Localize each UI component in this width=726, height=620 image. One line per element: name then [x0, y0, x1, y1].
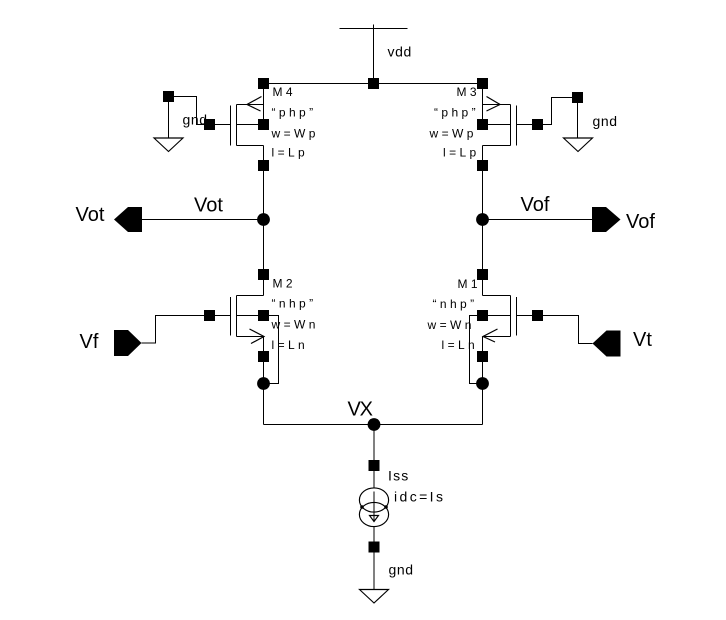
wire Vt port to M1 gate — [543, 316, 593, 344]
wire Iss to gnd — [373, 553, 375, 590]
port symbol Vf — [114, 330, 142, 356]
pin square M3 bulk — [477, 119, 488, 130]
wire M3 gate to gnd — [543, 98, 572, 125]
svg-text:w=Wp: w=Wp — [429, 127, 477, 141]
svg-text:idc=Is: idc=Is — [394, 489, 445, 505]
pin square M3 gate — [532, 119, 543, 130]
node M1 source junction dot — [476, 377, 489, 390]
svg-text:M2: M2 — [273, 277, 296, 291]
svg-text:l=Lp: l=Lp — [272, 146, 309, 160]
wire vdd symbol to rail — [373, 29, 375, 84]
svg-text:Vot: Vot — [76, 204, 105, 226]
junction square vdd/rail — [368, 78, 379, 89]
wire VX rail — [264, 424, 483, 426]
pin square M3 source — [477, 78, 488, 89]
svg-text:“nhp”: “nhp” — [272, 297, 317, 311]
pin square M4 bulk — [258, 119, 269, 130]
wire Vot node to M2 drain — [263, 220, 265, 296]
svg-text:gnd: gnd — [389, 562, 414, 578]
wire Vot node to port — [142, 219, 264, 221]
svg-text:l=Lp: l=Lp — [443, 146, 480, 160]
svg-text:l=Ln: l=Ln — [272, 338, 309, 352]
node VX junction dot — [368, 418, 381, 431]
svg-text:gnd: gnd — [183, 112, 208, 128]
svg-text:“php”: “php” — [272, 106, 317, 120]
transistor M2 — [215, 296, 264, 344]
svg-text:M1: M1 — [458, 277, 481, 291]
pin square M4 drain — [258, 160, 269, 171]
wire M2 source down — [263, 337, 265, 425]
pin square Iss top — [369, 460, 380, 471]
pin square M4 source — [258, 78, 269, 89]
gnd symbol top-right — [564, 92, 593, 152]
svg-text:M4: M4 — [273, 85, 296, 99]
svg-text:Vt: Vt — [633, 329, 652, 351]
current source Iss — [359, 471, 388, 547]
svg-text:Vof: Vof — [521, 194, 550, 216]
pin square M2 source — [258, 351, 269, 362]
transistor M1 — [483, 296, 533, 343]
pin square M3 drain — [477, 160, 488, 171]
wire Vof node to M1 drain — [482, 220, 484, 296]
wire Vf port to M2 gate — [142, 316, 205, 344]
gnd symbol top-left — [154, 91, 183, 152]
port symbol Vof — [592, 207, 621, 232]
transistor M4 — [215, 84, 264, 146]
svg-text:Vot: Vot — [194, 195, 223, 217]
svg-text:vdd: vdd — [388, 44, 412, 60]
node Vof junction dot — [476, 213, 489, 226]
wire gnd to M4 gate — [174, 97, 204, 125]
port symbol Vt — [593, 331, 621, 357]
wire M1 source down — [482, 337, 484, 425]
svg-text:Iss: Iss — [388, 468, 410, 484]
svg-text:Vof: Vof — [626, 211, 655, 233]
pin square Iss bottom — [369, 542, 380, 553]
pin square M1 source — [477, 351, 488, 362]
wire M1 bulk jog — [470, 316, 483, 384]
svg-text:w=Wn: w=Wn — [427, 318, 475, 332]
wire vdd rail M4 to M3 — [264, 83, 483, 85]
pin square M1 gate — [532, 310, 543, 321]
pin square M4 gate — [204, 119, 215, 130]
node Vot junction dot — [257, 213, 270, 226]
pin square M1 drain — [477, 269, 488, 280]
svg-text:“nhp”: “nhp” — [433, 297, 478, 311]
wire Vof node to port — [483, 219, 593, 221]
wire M2 bulk jog — [264, 316, 279, 384]
wire M4 drain to Vot node — [263, 146, 265, 220]
wire M3 drain to Vof node — [482, 146, 484, 220]
vdd power symbol — [340, 25, 408, 29]
transistor M3 — [483, 84, 533, 146]
pin square M2 gate — [204, 310, 215, 321]
pin square M2 drain — [258, 269, 269, 280]
svg-text:“php”: “php” — [434, 106, 479, 120]
gnd symbol bottom — [360, 590, 389, 604]
svg-text:w=Wp: w=Wp — [271, 127, 319, 141]
svg-text:gnd: gnd — [593, 113, 618, 129]
svg-text:Vf: Vf — [80, 331, 99, 353]
svg-text:l=Ln: l=Ln — [442, 338, 479, 352]
wire VX to Iss — [373, 425, 375, 467]
port symbol Vot — [114, 207, 142, 232]
pin square M2 bulk — [258, 310, 269, 321]
svg-text:w=Wn: w=Wn — [271, 318, 319, 332]
svg-text:VX: VX — [348, 399, 373, 421]
pin square M1 bulk — [477, 310, 488, 321]
svg-text:M3: M3 — [457, 85, 480, 99]
node M2 source junction dot — [257, 377, 270, 390]
